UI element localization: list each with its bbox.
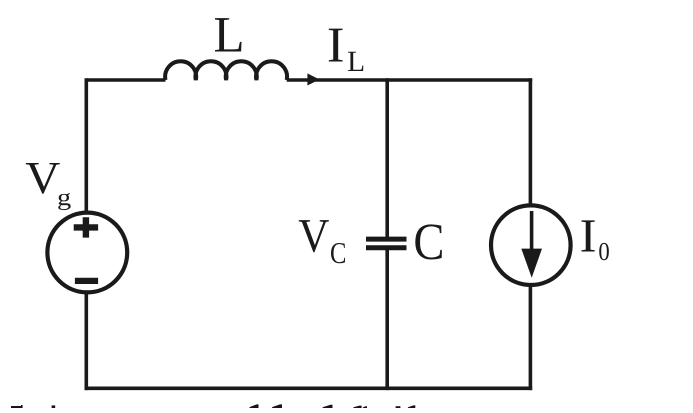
label I0 : 0 subscript (598, 237, 609, 266)
svg-text:L: L (214, 8, 245, 64)
label Vg : V (25, 152, 60, 203)
wire left vertical (85, 78, 89, 390)
wire top-right segment (287, 78, 533, 82)
svg-text:V: V (298, 209, 330, 262)
label VC : C subscript (330, 236, 346, 270)
wire top-left segment (86, 78, 165, 82)
wire bottom (85, 386, 533, 390)
svg-text:0: 0 (598, 237, 609, 266)
svg-text:g: g (57, 185, 72, 211)
wire capacitor branch lower (385, 250, 389, 390)
label C (413, 213, 444, 271)
svg-text:I: I (327, 17, 345, 73)
label VC : V (298, 209, 330, 262)
current source arrow shaft (530, 211, 534, 253)
svg-text:L: L (347, 46, 365, 78)
wire right vertical (529, 78, 533, 390)
current source arrowhead (521, 249, 542, 278)
label I0 : I (580, 211, 597, 263)
svg-text:I: I (580, 211, 597, 263)
capacitor C plates (366, 239, 407, 248)
svg-text:C: C (330, 236, 346, 270)
label Vg : g subscript (57, 185, 72, 211)
caption fragment (cut off at bottom edge) (11, 404, 415, 408)
minus sign inside Vg (75, 278, 98, 284)
label IL : I (327, 17, 345, 73)
current source I0 circle (491, 205, 571, 285)
arrow for inductor current IL (307, 73, 319, 85)
inductor L (165, 61, 287, 80)
voltage source Vg circle (47, 213, 127, 293)
plus sign inside Vg (74, 217, 98, 237)
svg-text:C: C (413, 213, 444, 271)
svg-text:V: V (25, 152, 60, 203)
wire capacitor branch upper (385, 78, 389, 237)
